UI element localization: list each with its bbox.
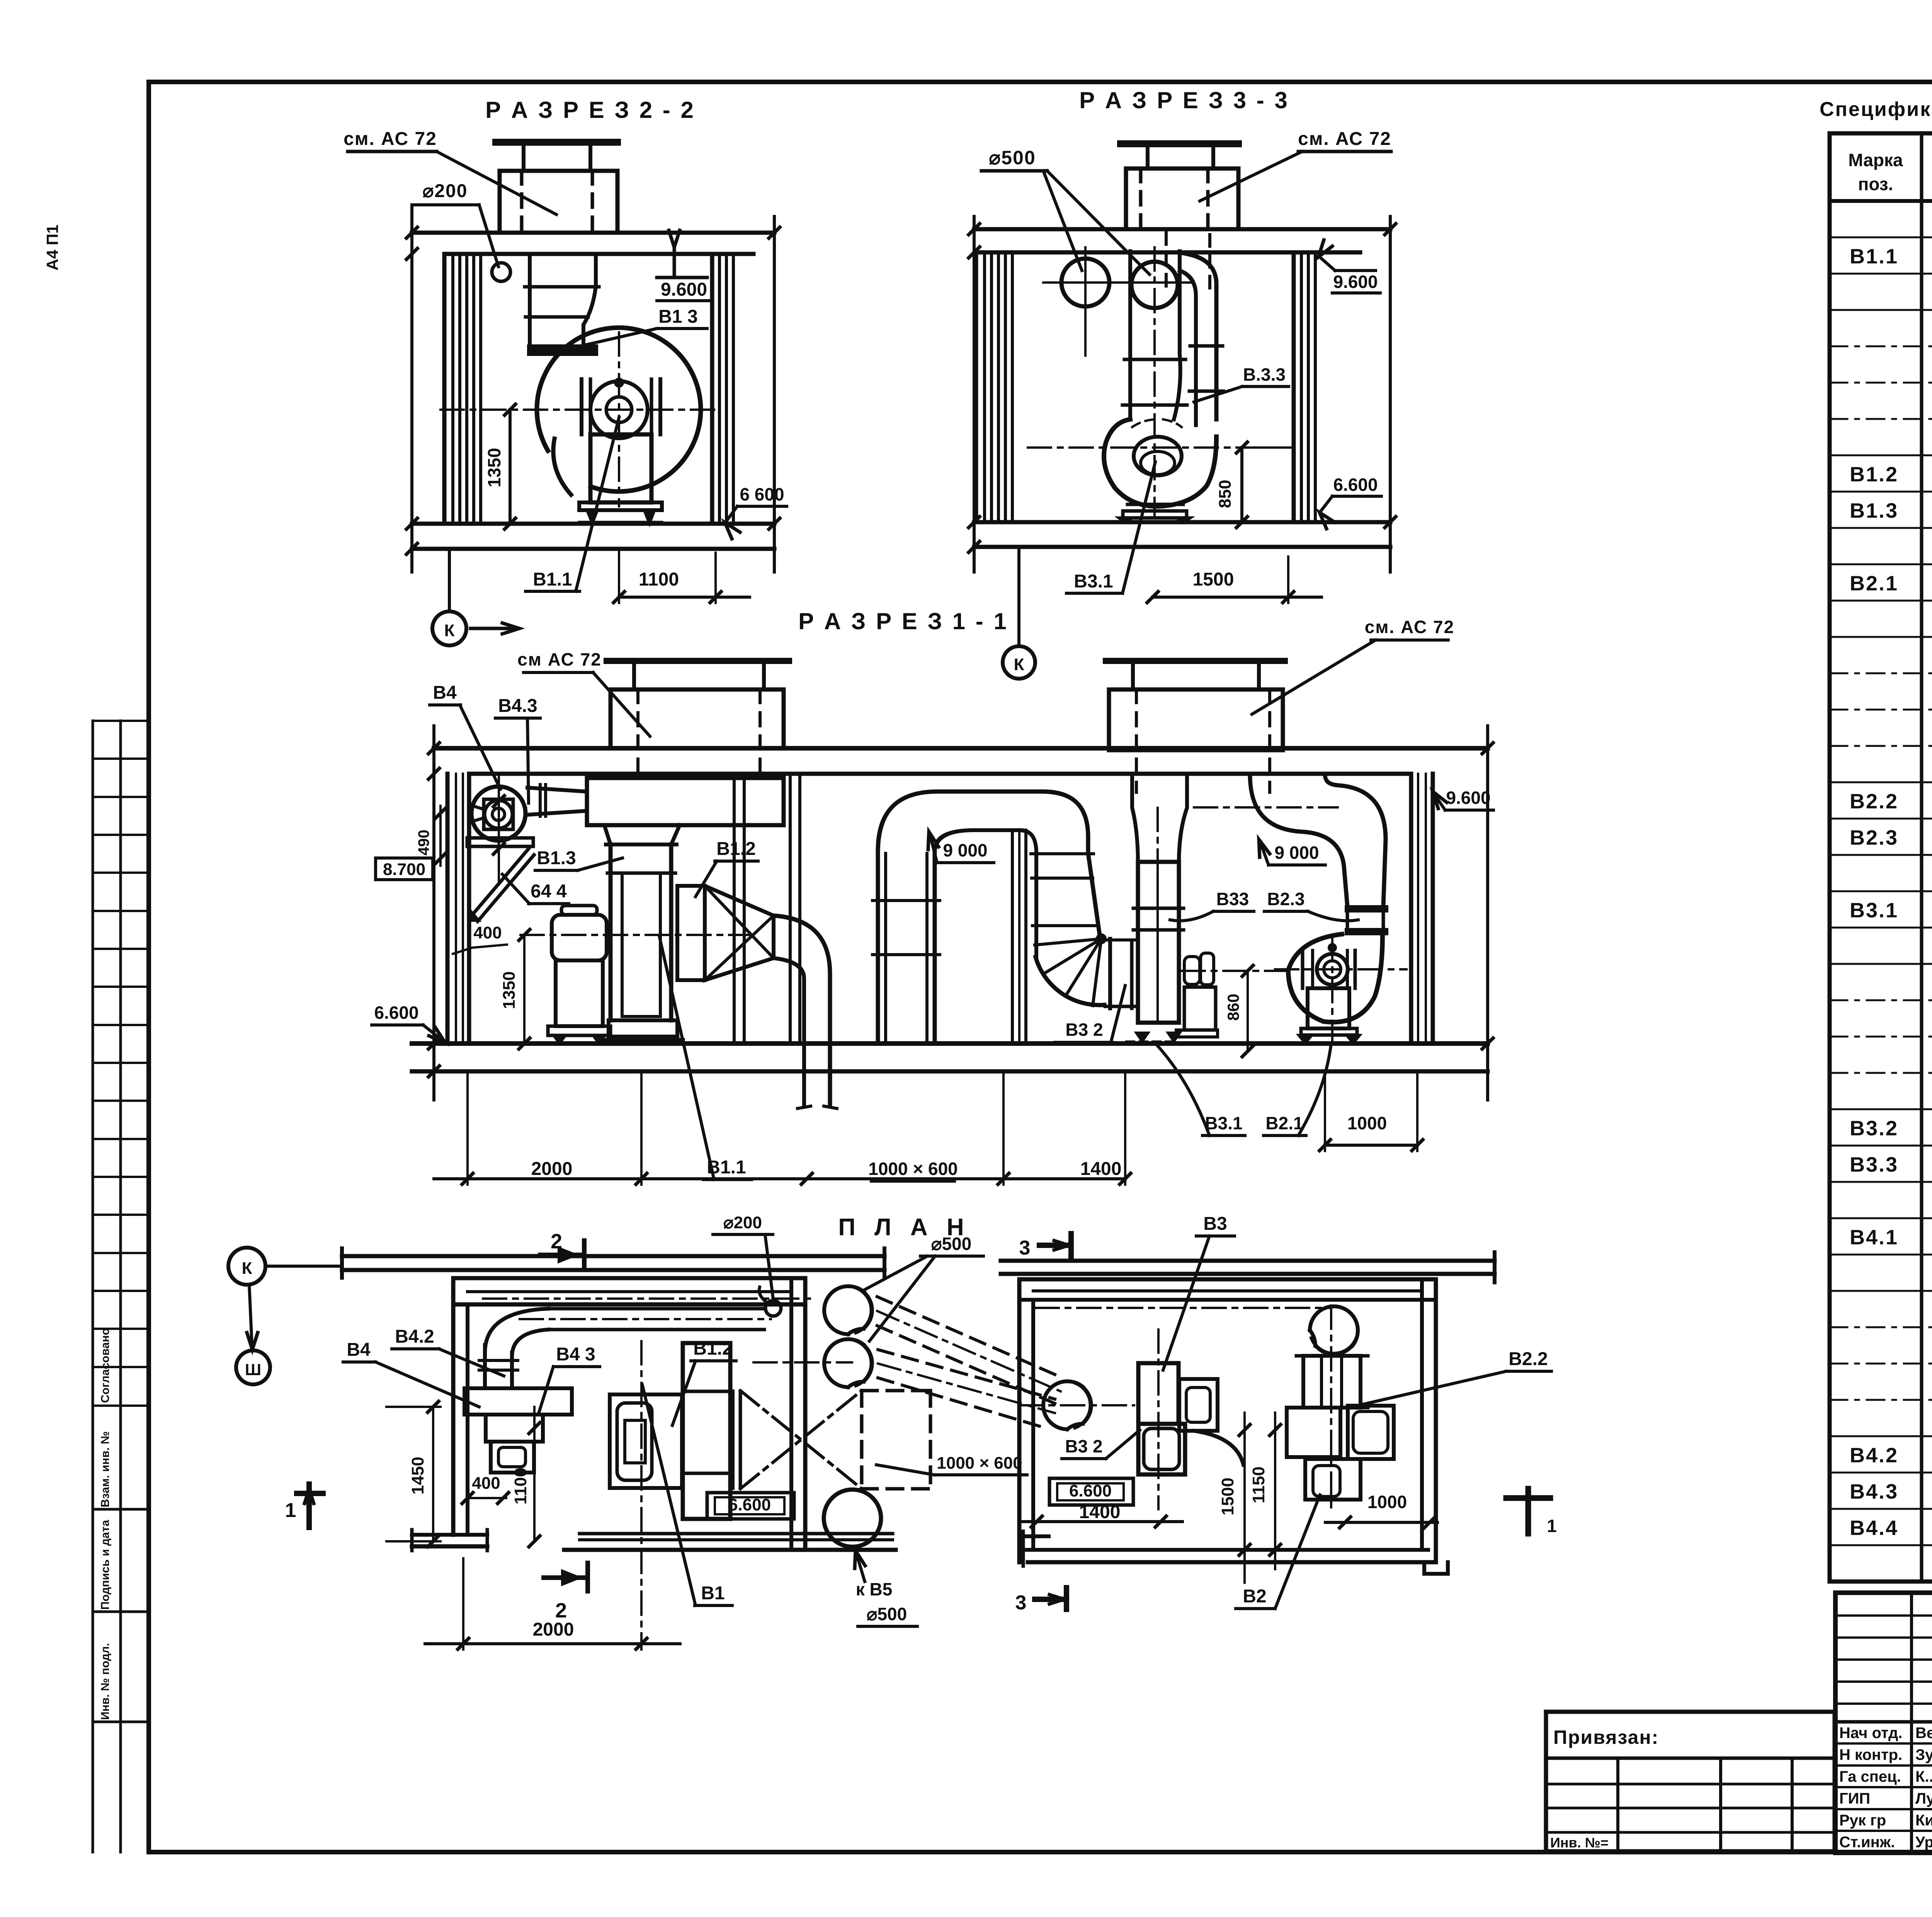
svg-text:ГИП: ГИП — [1839, 1790, 1870, 1807]
roof unit1 flag bar — [607, 658, 789, 664]
column pair b — [789, 774, 792, 1044]
left dim line — [410, 205, 413, 572]
axis line 33 — [1017, 547, 1020, 646]
roof unit2 dashed — [1135, 690, 1138, 792]
svg-text:В4 3: В4 3 — [556, 1344, 595, 1365]
privyazan grid — [1616, 1758, 1619, 1851]
column pair a — [733, 774, 736, 1044]
B2 duct elbow right top edge — [1325, 776, 1386, 906]
svg-text:В3: В3 — [1203, 1214, 1227, 1234]
B3.1 unit bottom feet — [1126, 1040, 1173, 1043]
svg-text:В2.3: В2.3 — [1850, 826, 1898, 850]
svg-text:Взам. инв. №: Взам. инв. № — [99, 1431, 112, 1507]
B3 plan fan block lower — [1138, 1424, 1185, 1474]
B1.2 cone — [705, 886, 774, 980]
B4 outlet duct to plenum — [527, 788, 587, 792]
svg-text:К: К — [444, 621, 455, 640]
B1.2 diffuser frame — [677, 886, 705, 980]
svg-text:1000 × 600: 1000 × 600 — [868, 1159, 958, 1179]
B2 duct elbow left bottom edge — [1250, 776, 1347, 906]
B1 motor upper — [552, 915, 607, 960]
left margin lower stamp cells — [93, 1508, 149, 1511]
svg-text:1400: 1400 — [1080, 1159, 1122, 1179]
right dim line 11 — [1486, 726, 1489, 1100]
B3 plan motor box — [1179, 1379, 1218, 1431]
left margin column grid — [92, 721, 94, 1852]
flexible insert B1.3 band — [529, 346, 597, 354]
right plan bottom left footing — [1023, 1534, 1049, 1538]
svg-text:В.3.3: В.3.3 — [1243, 364, 1286, 385]
B1 taper — [604, 825, 611, 844]
K to beam line — [265, 1265, 340, 1268]
right plan bottom right footing — [1422, 1562, 1426, 1574]
right plan top wall — [1019, 1277, 1436, 1282]
left plan left wall — [451, 1278, 456, 1535]
elbow down through floor outer — [774, 916, 830, 1106]
B1 motor body — [556, 960, 603, 1026]
ceiling slab 11 — [434, 746, 1488, 751]
svg-text:см. АС 72: см. АС 72 — [344, 129, 437, 149]
fan B1.1 scroll — [537, 328, 701, 492]
bottom dim line 11 — [434, 1177, 1125, 1180]
svg-text:В4.2: В4.2 — [1850, 1444, 1898, 1467]
svg-text:1100: 1100 — [639, 569, 679, 590]
left plan bottom wall — [580, 1532, 893, 1536]
svg-text:1000: 1000 — [1367, 1492, 1407, 1512]
left plan top wall — [453, 1276, 805, 1280]
privyazan box outer — [1546, 1712, 1835, 1851]
svg-text:В1.3: В1.3 — [537, 848, 576, 868]
B4 plan unit mid rect — [486, 1415, 543, 1442]
label B33 leader — [1170, 911, 1213, 921]
svg-text:64 4: 64 4 — [531, 881, 567, 902]
svg-text:Р А З Р Е З 1 - 1: Р А З Р Е З 1 - 1 — [798, 608, 1009, 634]
axis centerline vertical — [618, 332, 620, 506]
fan B2.1 bracket — [1301, 950, 1304, 988]
B3.1 unit flanges — [1133, 907, 1184, 910]
svg-text:⌀200: ⌀200 — [423, 181, 468, 201]
B1.3 leader — [564, 329, 657, 350]
level 9.600 33 — [1318, 240, 1332, 257]
svg-text:490: 490 — [415, 830, 432, 856]
B2 plan duct — [1303, 1356, 1361, 1408]
svg-text:1500: 1500 — [1218, 1478, 1237, 1515]
duct B1 vertical — [528, 254, 532, 346]
svg-text:В4.1: В4.1 — [1850, 1226, 1898, 1249]
roof unit1 dashed — [636, 690, 639, 776]
axis W circle plan — [236, 1350, 270, 1384]
left plan right wall — [789, 1278, 793, 1550]
svg-text:Ш: Ш — [245, 1360, 261, 1379]
fan B2.1 scroll — [1288, 934, 1383, 1022]
B1.2 plan X dashdot — [740, 1391, 862, 1489]
dashed risers 33 — [1165, 229, 1168, 286]
bend hub — [1097, 935, 1105, 943]
right dim line — [773, 216, 776, 572]
svg-text:9.600: 9.600 — [661, 279, 707, 300]
svg-text:860: 860 — [1224, 994, 1242, 1021]
duct taper flanges 33 — [1124, 358, 1185, 361]
svg-text:В3 2: В3 2 — [1065, 1436, 1102, 1456]
kB5 circle — [824, 1490, 881, 1547]
left wall 11 — [446, 774, 450, 1044]
svg-text:Инв. № подл.: Инв. № подл. — [99, 1643, 112, 1720]
svg-text:6 600: 6 600 — [740, 484, 784, 504]
svg-text:2000: 2000 — [533, 1619, 574, 1640]
diag duct2 borders — [878, 1350, 1055, 1399]
svg-text:1: 1 — [1547, 1516, 1557, 1536]
spec table rows — [1830, 237, 1932, 238]
right plan left wall — [1017, 1279, 1022, 1562]
phi200 leader — [479, 205, 498, 267]
descend duct flanges — [1031, 852, 1094, 855]
svg-text:850: 850 — [1216, 480, 1235, 508]
B1 motor base — [548, 1026, 611, 1035]
left dim line 11 — [432, 726, 435, 1100]
fan hub circles — [590, 381, 648, 438]
B3.1 motor base — [1176, 1030, 1218, 1037]
svg-text:400: 400 — [473, 923, 502, 942]
svg-text:1500: 1500 — [1193, 569, 1234, 590]
fan B4 bracket plate — [467, 838, 533, 846]
duct flanges — [525, 285, 599, 289]
fan bracket posts — [580, 379, 583, 434]
B3.2 insert verticals — [1108, 939, 1112, 1008]
phi200 opening circle — [492, 263, 510, 281]
label B4 leader — [460, 705, 500, 789]
duct circle 1 — [1061, 259, 1109, 306]
svg-text:В2.2: В2.2 — [1850, 790, 1898, 813]
svg-text:В2.3: В2.3 — [1267, 889, 1304, 909]
B1 plan motor rounded — [617, 1403, 652, 1480]
dim 1350 line — [509, 410, 512, 524]
axis K circle 33 — [1003, 646, 1035, 679]
svg-text:В4.3: В4.3 — [498, 696, 537, 716]
B3.1 leader below — [1157, 1045, 1209, 1136]
B1 duct vertical — [609, 844, 613, 1020]
column pair c — [1011, 830, 1014, 1044]
plan duct dashed box — [860, 1391, 864, 1489]
centerline vertical 33 — [1153, 247, 1156, 516]
B3.1 unit top flare — [1132, 774, 1138, 862]
right plan coil centerline — [1019, 1404, 1134, 1406]
B4 plan unit bottom box — [491, 1442, 534, 1473]
svg-text:В3.3: В3.3 — [1850, 1153, 1898, 1176]
svg-text:3: 3 — [1015, 1592, 1027, 1614]
svg-text:К..илова: К..илова — [1915, 1768, 1932, 1785]
discharge duct 33 — [1183, 253, 1216, 419]
B1 motor cap — [561, 906, 597, 915]
svg-text:6.600: 6.600 — [374, 1003, 418, 1023]
roof unit dashes 33 — [1139, 169, 1143, 229]
svg-text:В2.2: В2.2 — [1509, 1349, 1548, 1369]
svg-text:В4: В4 — [433, 683, 457, 703]
svg-text:8.700: 8.700 — [383, 860, 425, 879]
B2.3 insert dark bands — [1346, 906, 1387, 911]
riser duct verticals — [876, 851, 880, 1044]
right wall hatch 33 — [1292, 252, 1296, 522]
B4 fan axis vertical — [498, 777, 500, 881]
axis K-W connector — [249, 1285, 252, 1345]
svg-text:В3.2: В3.2 — [1850, 1117, 1898, 1140]
svg-text:⌀500: ⌀500 — [931, 1234, 971, 1254]
svg-text:К: К — [242, 1259, 252, 1278]
B3 plan centerline vert — [1157, 1330, 1160, 1509]
svg-text:Спецификация отопительно-ве: Спецификация отопительно-вентиляционных … — [1820, 98, 1932, 121]
fan base 33 — [1128, 503, 1183, 506]
axis K arrow — [471, 627, 514, 630]
svg-text:6.600: 6.600 — [1069, 1481, 1112, 1500]
B1 base — [603, 1038, 683, 1042]
plan centerline coil2 — [753, 1361, 852, 1364]
T1 mark — [1526, 1489, 1531, 1534]
spec table column lines — [1920, 133, 1923, 1582]
B3.1 unit box — [1138, 862, 1179, 1023]
label B4.3 leader — [527, 718, 529, 803]
roof unit1 posts — [632, 661, 636, 690]
B3.1 motor caps — [1184, 957, 1200, 984]
plan centerline upper — [483, 1297, 815, 1300]
label B2.3 leader — [1308, 911, 1358, 921]
B3.1 unit seam — [1156, 862, 1159, 1023]
vertical duct 33 — [1128, 251, 1132, 419]
centerline horizontal 33 — [1028, 446, 1252, 449]
B2 fan axis vertical — [1331, 937, 1333, 1042]
phi500 leaders — [1043, 171, 1082, 271]
left plan top beam — [342, 1254, 884, 1258]
svg-text:В4.2: В4.2 — [395, 1326, 434, 1347]
right wall 11 — [1409, 774, 1413, 1044]
svg-text:Нач отд.: Нач отд. — [1839, 1725, 1902, 1742]
svg-text:Урьев: Урьев — [1915, 1834, 1932, 1851]
svg-text:Привязан:: Привязан: — [1553, 1726, 1659, 1748]
B1 unit bottom box — [609, 1020, 677, 1037]
B4 plan elbow arcs — [485, 1309, 549, 1353]
svg-text:В1.1: В1.1 — [533, 569, 572, 590]
svg-text:В1.2: В1.2 — [693, 1338, 732, 1359]
B1 duct bottom inner — [622, 1015, 660, 1018]
see AC72 leader 33 — [1200, 152, 1302, 201]
axis centerline horizontal — [440, 409, 715, 411]
circle1 crosslines — [1084, 247, 1087, 356]
motor block — [590, 434, 651, 502]
title block vertical lines — [1910, 1593, 1913, 1853]
svg-text:1: 1 — [285, 1499, 296, 1522]
svg-text:Ст.инж.: Ст.инж. — [1839, 1834, 1895, 1851]
svg-text:1000: 1000 — [1347, 1113, 1387, 1133]
segment bend radial lines — [1036, 957, 1104, 1005]
fan B4 inlet bell — [469, 805, 484, 809]
svg-text:1350: 1350 — [500, 971, 519, 1009]
riser flanges — [872, 899, 940, 902]
B2 insert piece walls — [1346, 911, 1349, 929]
B1 plan duct tall rect — [683, 1343, 730, 1519]
svg-text:400: 400 — [472, 1474, 500, 1493]
phi200 duct bottom edge — [549, 1328, 764, 1331]
duct circle 2 — [1131, 262, 1178, 308]
B4 plan duct flanges — [479, 1359, 518, 1362]
right plan upper duct centerline — [1036, 1307, 1329, 1309]
elbow down inner — [774, 958, 804, 1106]
svg-text:1150: 1150 — [1249, 1466, 1268, 1503]
svg-text:поз.: поз. — [1858, 174, 1893, 194]
svg-text:Р А З Р Е З 2 - 2: Р А З Р Е З 2 - 2 — [485, 97, 696, 123]
svg-text:1350: 1350 — [484, 448, 504, 487]
motor axis dashdot — [1182, 970, 1289, 972]
bottom dim extension lines — [466, 1071, 469, 1185]
svg-text:А4 П1: А4 П1 — [43, 225, 61, 271]
B2 plan right block — [1348, 1406, 1394, 1459]
B3.3 leader 33 — [1194, 386, 1242, 402]
level mark 9.600 — [669, 230, 680, 247]
svg-text:В1 3: В1 3 — [658, 306, 697, 327]
motor base — [579, 502, 662, 510]
svg-text:В1: В1 — [701, 1583, 724, 1604]
svg-text:9.600: 9.600 — [1333, 272, 1378, 292]
B3.1 motor body — [1184, 987, 1216, 1030]
roof flag posts — [522, 142, 526, 171]
plan centerline A — [520, 1318, 771, 1320]
left wall hatch — [442, 254, 447, 524]
descend duct left edge — [1020, 830, 1036, 958]
svg-text:см АС 72: см АС 72 — [517, 649, 602, 669]
below floor duct flare — [798, 1106, 811, 1108]
B2 plan fan block — [1287, 1408, 1340, 1457]
B1.2 cone X — [705, 886, 774, 958]
svg-text:1000 × 600: 1000 × 600 — [937, 1454, 1022, 1473]
spec table outer — [1830, 133, 1932, 1582]
svg-text:6.600: 6.600 — [1333, 475, 1378, 495]
fan B3.1 scroll 33 — [1104, 419, 1216, 506]
right plan top beam — [1001, 1259, 1495, 1263]
axis line B1 horiz — [520, 934, 752, 936]
riser elbow outer — [878, 792, 1043, 851]
axis K line — [448, 549, 451, 612]
svg-text:В4.3: В4.3 — [1850, 1480, 1898, 1503]
B1 plenum box — [587, 778, 784, 825]
right dim 33 — [1389, 216, 1392, 572]
roof unit1 box — [611, 690, 784, 748]
fan B2.1 hub — [1317, 954, 1348, 985]
descend elbow outer right — [1043, 792, 1100, 935]
svg-text:Рук гр: Рук гр — [1839, 1812, 1886, 1829]
phi500 coil bottom — [824, 1339, 872, 1387]
label B1.3 leader — [578, 858, 622, 870]
svg-text:⌀200: ⌀200 — [723, 1213, 762, 1232]
dim 850 line — [1240, 448, 1243, 522]
roof unit2 posts — [1131, 661, 1135, 690]
svg-text:В1.2: В1.2 — [716, 839, 755, 859]
roof unit box 33 — [1126, 169, 1238, 229]
svg-text:В2.1: В2.1 — [1850, 572, 1898, 595]
B1.1 leader — [576, 417, 619, 591]
svg-text:В3 2: В3 2 — [1065, 1020, 1103, 1040]
phi200 duct top edge — [549, 1307, 764, 1311]
B3.1 leader 33 — [1122, 462, 1155, 593]
upper slab — [412, 231, 774, 235]
svg-text:1100: 1100 — [511, 1468, 530, 1504]
svg-text:В1.1: В1.1 — [1850, 245, 1898, 268]
title block outer — [1835, 1593, 1932, 1853]
svg-text:В2: В2 — [1243, 1586, 1266, 1607]
level 8.700 box — [376, 858, 433, 880]
svg-text:к В5: к В5 — [856, 1579, 893, 1599]
svg-text:⌀500: ⌀500 — [989, 147, 1036, 169]
svg-text:⌀500: ⌀500 — [867, 1604, 907, 1624]
svg-text:В3.1: В3.1 — [1074, 571, 1113, 592]
svg-text:Согласовано: Согласовано — [99, 1328, 112, 1403]
svg-text:см. АС 72: см. АС 72 — [1365, 617, 1454, 637]
left wall hatch 33 — [974, 252, 978, 522]
phi500 coil top — [824, 1286, 872, 1334]
svg-text:В1.3: В1.3 — [1850, 499, 1898, 523]
B1.2 plan flange lines — [731, 1391, 735, 1488]
svg-text:6.600: 6.600 — [728, 1495, 771, 1514]
privyazan header line — [1546, 1757, 1835, 1760]
B4 plan unit top rect — [464, 1388, 572, 1415]
B3 plan inner rounded — [1144, 1428, 1179, 1469]
B2 plan centerline — [1330, 1306, 1332, 1509]
svg-text:В4: В4 — [347, 1340, 371, 1360]
svg-text:В3.1: В3.1 — [1850, 899, 1898, 922]
motor feet — [587, 510, 597, 523]
6600 box right plan — [1049, 1478, 1133, 1505]
right plan bottom wall — [1034, 1548, 1428, 1552]
floor slab 11 — [412, 1041, 1488, 1046]
roof unit box — [500, 171, 617, 233]
svg-text:К: К — [1014, 655, 1024, 674]
roof flag bar 33 — [1121, 140, 1238, 147]
diag duct2 center — [878, 1364, 1055, 1413]
bottom slab — [412, 522, 774, 526]
roof unit2 box — [1109, 690, 1283, 750]
svg-text:Подпись и дата: Подпись и дата — [99, 1520, 112, 1610]
B2 fan axis — [1275, 968, 1406, 970]
B3 plan fan block upper — [1138, 1363, 1179, 1424]
left dim 33 — [973, 216, 976, 572]
label B1.1 leader 11 — [660, 937, 714, 1180]
B2.1 leader below — [1298, 1044, 1331, 1136]
svg-text:см. АС 72: см. АС 72 — [1298, 129, 1391, 149]
svg-text:9.600: 9.600 — [1446, 788, 1490, 808]
svg-text:Веприйский: Веприйский — [1915, 1725, 1932, 1742]
svg-text:В4.4: В4.4 — [1850, 1517, 1898, 1540]
diag duct1 center — [877, 1311, 1061, 1391]
svg-text:3: 3 — [1019, 1237, 1031, 1259]
roof flag bar — [496, 139, 617, 146]
svg-text:9 000: 9 000 — [1274, 843, 1319, 863]
see AC72 leader — [437, 152, 556, 215]
left plan bottom left footing — [412, 1533, 487, 1537]
see AC72 leader right 11 — [1252, 640, 1376, 714]
riser elbow inner — [935, 830, 1020, 851]
sheet frame — [149, 80, 1932, 84]
right wall hatch — [710, 254, 714, 524]
fan inner ellipse — [1134, 437, 1182, 475]
right plan right wall — [1420, 1282, 1424, 1550]
B2 plan bottom block — [1305, 1459, 1361, 1500]
fan B4 brace — [471, 849, 529, 917]
svg-text:Инв. №=: Инв. №= — [1550, 1835, 1609, 1851]
svg-text:В2.1: В2.1 — [1265, 1113, 1303, 1133]
see AC72 leader left 11 — [593, 672, 650, 736]
bottom slab 33 — [974, 520, 1390, 524]
discharge flanges 33 — [1190, 344, 1223, 348]
circle2 cross — [1113, 281, 1194, 284]
svg-text:Лукьянова: Лукьянова — [1915, 1790, 1932, 1807]
6600 box left plan — [707, 1493, 794, 1519]
B3 plan scroll arc — [1194, 1431, 1243, 1465]
